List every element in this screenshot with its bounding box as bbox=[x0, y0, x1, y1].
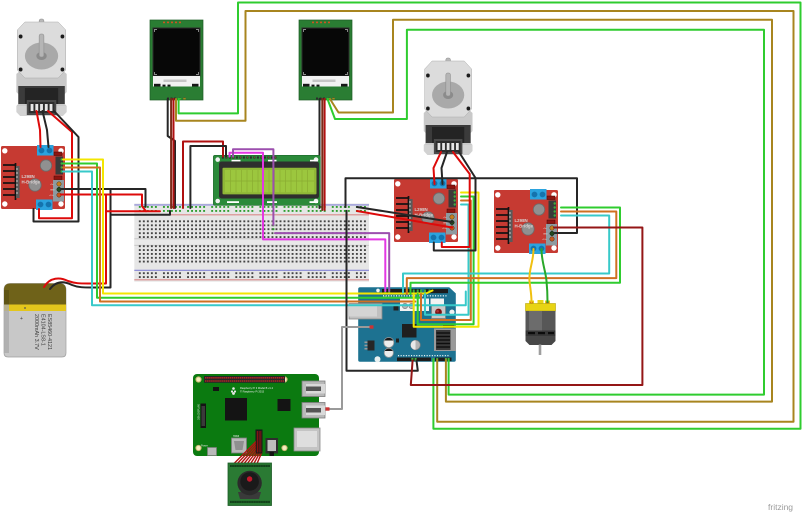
wire stepper M1 red coil B (wrap) bbox=[39, 111, 72, 218]
wire TFT1 red to rail bbox=[173, 99, 175, 208]
wire olive TFT2 to Arduino (loop) bbox=[330, 20, 772, 402]
wire purple LCD to breadboard bbox=[233, 149, 273, 225]
wire U1 GND black to breadboard rail bbox=[61, 189, 146, 207]
TFT display LCD2 bbox=[299, 20, 352, 100]
wire cyan U1 to Arduino bbox=[63, 172, 466, 306]
svg-text:ES85460-4121: ES85460-4121 bbox=[46, 314, 52, 350]
wire stepper M1 red coil A bbox=[37, 111, 41, 147]
TFT display LCD1 bbox=[150, 20, 203, 100]
Arduino board A1 bbox=[349, 287, 456, 362]
wire olive TFT1 to Arduino (loop) bbox=[176, 11, 794, 422]
svg-text:E4104-LS8-1: E4104-LS8-1 bbox=[40, 314, 46, 346]
wire TFT1 black to rail bbox=[168, 99, 175, 208]
wire TFT1 maroon to rail bbox=[170, 99, 172, 208]
breadboard bbox=[134, 204, 369, 282]
wire battery black to U1 GND bbox=[50, 190, 111, 289]
wire black rail to Arduino GND bbox=[347, 211, 418, 371]
wire green U3 to Arduino bbox=[411, 208, 621, 295]
wire green U1 to Arduino bbox=[63, 164, 420, 298]
DC motor M3 bbox=[526, 300, 556, 355]
wire red battery link on rail bbox=[106, 210, 146, 212]
wire TFT2 maroon to rail bbox=[321, 99, 323, 210]
wire orange U1 to Arduino bbox=[63, 168, 415, 302]
wire stepper M2 black coil B (wrap) bbox=[434, 152, 476, 251]
usb cable tip A bbox=[370, 325, 374, 328]
wire U1 +12v red to breadboard rail bbox=[61, 195, 160, 212]
svg-text:H-Bridge: H-Bridge bbox=[22, 180, 41, 185]
svg-text:© Raspberry Pi 2015: © Raspberry Pi 2015 bbox=[240, 390, 265, 394]
battery BT1 LiPo 2000mAh bbox=[4, 284, 66, 358]
svg-text:fritzing: fritzing bbox=[768, 502, 793, 512]
svg-text:2000mAh 3.7V: 2000mAh 3.7V bbox=[33, 314, 39, 350]
wire gray USB Arduino to RPi bbox=[328, 327, 372, 409]
L298N H-bridge board U3 bbox=[494, 189, 558, 254]
wire maroon U3 +5v to Arduino bbox=[411, 228, 643, 386]
breadboard hole grid bbox=[139, 206, 366, 278]
wire green U3 to DC motor bbox=[542, 249, 548, 302]
wire green TFT2 to Arduino (inner loop) bbox=[328, 30, 765, 395]
wire stepper M2 red coil A bbox=[434, 152, 442, 184]
svg-text:DSI (DISPLAY): DSI (DISPLAY) bbox=[198, 404, 201, 420]
svg-text:HDMI: HDMI bbox=[233, 435, 239, 438]
wire green TFT1 to Arduino (outer loop) bbox=[179, 3, 801, 429]
wire LCD black to rail bbox=[190, 146, 226, 208]
wire battery red to U1 +12v bbox=[44, 195, 106, 287]
svg-text:H-Bridge: H-Bridge bbox=[515, 224, 534, 229]
wire stepper M1 black coil A bbox=[43, 111, 49, 147]
wire yellow U1 to Arduino bbox=[63, 160, 433, 294]
wire TFT2 red to rail bbox=[324, 99, 326, 210]
wire green U2 to Arduino bbox=[418, 197, 474, 325]
wire magenta LCD to Arduino bbox=[230, 153, 386, 291]
wire black battery link to rail bbox=[111, 211, 171, 215]
LCD 16x2 display LCD3 bbox=[213, 155, 320, 205]
wire yellow U2 to Arduino bbox=[414, 193, 479, 327]
wire LCD red to rail bbox=[183, 142, 223, 209]
svg-text:L298N: L298N bbox=[515, 218, 528, 223]
camera ribbon cable bbox=[232, 430, 263, 466]
wire stepper M1 black coil B (wrap) bbox=[34, 111, 79, 222]
Raspberry Pi board bbox=[193, 374, 325, 456]
wire black rail to U2 GND bbox=[357, 207, 452, 222]
wire cyan U3 to Arduino bbox=[403, 216, 609, 293]
stepper motor M1 bbox=[16, 19, 66, 116]
wire TFT2 black to rail (under LCD) bbox=[319, 99, 321, 208]
stepper motor M2 bbox=[424, 58, 473, 155]
wire black rail to U3 GND bbox=[346, 178, 578, 233]
wire stepper M2 red coil B (wrap) bbox=[442, 152, 470, 247]
svg-text:L298N: L298N bbox=[415, 207, 428, 212]
svg-text:+: + bbox=[20, 316, 23, 322]
wire stepper M2 black coil A bbox=[442, 152, 448, 184]
svg-text:L298N: L298N bbox=[22, 174, 35, 179]
wire yellow U3 to DC motor bbox=[529, 249, 533, 302]
wire orange U2 to Arduino bbox=[421, 201, 471, 321]
camera module bbox=[228, 463, 272, 506]
L298N H-bridge board U1 bbox=[1, 145, 65, 210]
wire orange U3 to Arduino bbox=[407, 212, 617, 295]
svg-text:Power: Power bbox=[201, 445, 208, 448]
wire purple breadboard to Arduino bbox=[275, 233, 389, 291]
breadboard connected holes green bbox=[262, 206, 348, 238]
wire cyan U2 to Arduino bbox=[425, 205, 469, 315]
L298N H-bridge board U2 bbox=[394, 178, 458, 243]
svg-text:Raspberry Pi 3 Model B v1.2: Raspberry Pi 3 Model B v1.2 bbox=[240, 386, 274, 390]
usb cable tip B bbox=[326, 407, 330, 410]
wire red rail to U2 +12v bbox=[357, 211, 452, 228]
